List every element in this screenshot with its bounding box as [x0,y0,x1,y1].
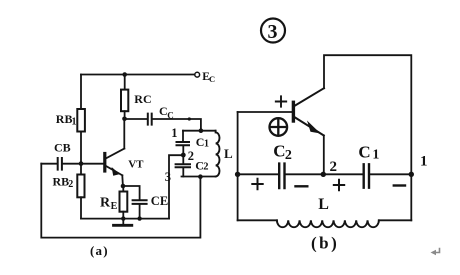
resistor RB2 [77,175,84,198]
label C2 (b) [273,141,292,163]
svg-text:(a): (a) [90,243,109,258]
capacitor CC [148,114,152,125]
wire middle line (b) [238,173,412,175]
wire CC left lead [125,118,148,120]
resistor RB1 [77,109,85,132]
label C1 (b) [358,143,379,163]
svg-text:E: E [111,201,118,212]
wire CB leads [41,163,104,165]
capacitor CB [58,158,62,170]
wire left branch vertical [80,75,82,219]
label node 2 [188,149,194,163]
capacitor C1 (b) [364,164,369,187]
node 2 junction [181,153,186,158]
wire feedback loop [41,164,200,238]
label C2 [195,158,208,172]
node collector/CC junction [122,117,127,122]
node CE stem junction [137,216,141,220]
svg-text:1: 1 [171,126,177,140]
label CB [54,140,71,154]
label plus left of C2 [252,179,262,189]
wire RC top [124,75,126,90]
wire bottom left segment (b) [238,219,277,221]
label VT [128,158,144,170]
svg-text:R: R [100,195,111,210]
svg-text:RB: RB [56,112,73,126]
capacitor C1 (a) [177,142,190,145]
svg-text:L: L [318,196,329,213]
wire base lead (b) [238,111,293,113]
svg-text:1: 1 [420,154,428,170]
wire emitter down to node 2 (b) [323,136,325,175]
label L (b) [318,196,329,213]
transistor VT [105,149,125,176]
node RE stem junction [121,216,125,220]
wire CC to tank top [152,119,201,131]
node base junction [79,161,84,166]
svg-text:2: 2 [285,148,292,163]
capacitor C2 (b) [279,164,284,188]
svg-text:3: 3 [165,170,171,184]
node tank bottom junction [198,174,203,179]
svg-text:RB: RB [53,175,70,189]
svg-text:VT: VT [128,158,144,170]
transistor (b) [293,88,324,135]
label RB1 [56,112,77,127]
capacitor C2 (a) [176,164,190,167]
wire left vertical (b) [237,112,239,220]
wire C1 to node 2 [182,146,184,164]
label node 1 [171,126,177,140]
label node 2 (b) [330,159,338,175]
svg-text:C: C [358,143,370,162]
label node 1 (b) [420,154,428,170]
svg-text:C: C [209,74,215,84]
resistor RE [120,192,128,212]
label plus right of node 2 [334,180,344,190]
label RB2 [53,175,74,191]
label node 3 [165,170,171,184]
inductor L (a) [216,131,220,177]
svg-text:CB: CB [54,140,71,154]
svg-text:3: 3 [268,21,278,43]
wire emitter down to node [121,175,124,186]
wire to CE [123,186,140,219]
svg-text:RC: RC [134,92,151,106]
svg-text:2: 2 [203,162,208,173]
wire bottom right segment (b) [379,219,412,221]
svg-text:1: 1 [72,116,77,127]
node tank top junction [199,128,204,133]
node 2 junction (b) [321,172,326,177]
wire node2 to emitter ground line [169,155,183,218]
node left junction (b) [235,172,240,177]
caption (a) [90,243,109,258]
wire C2 to tank bottom [182,168,184,177]
label C1 [196,135,209,149]
wire tank bottom line [182,176,216,178]
svg-text:2: 2 [330,159,338,175]
svg-text:2: 2 [188,149,194,163]
svg-text:CE: CE [151,194,168,208]
label plus at base [276,96,286,106]
artifact gray return arrow [431,249,440,256]
svg-text:C: C [273,141,285,160]
wire tank left upper lead [182,131,184,142]
node junction at RC top [122,72,127,77]
label RC [134,92,151,106]
svg-text:(b): (b) [311,234,339,253]
marker circled plus (emitter junction) [270,118,288,136]
terminal EC [195,72,200,77]
marker circled 3 [261,19,285,44]
label minus right of C2 [296,185,308,187]
ground [114,219,132,226]
wire tank top line [183,130,216,132]
resistor RC [121,90,128,112]
wire emitter node to RE [122,186,124,219]
node small dot on CC wire [188,117,191,120]
wire collector to RC [123,111,125,148]
node emitter junction [121,184,126,189]
label minus left of node 1 [394,184,405,186]
svg-text:L: L [224,146,233,161]
label RE [100,195,118,211]
label EC [202,71,215,84]
wire top supply rail (a) [81,74,195,76]
svg-text:1: 1 [372,148,379,163]
wire bias/emitter bottom line [81,218,169,220]
label CE [151,194,168,208]
label CC [159,104,174,120]
node 1 junction (b) [409,172,414,177]
label L (a) [224,146,233,161]
capacitor CE [133,200,147,204]
inductor L (b) [277,220,379,227]
wire collector box (b) [324,55,411,220]
svg-text:1: 1 [204,138,209,149]
svg-text:2: 2 [68,179,73,190]
caption (b) [311,234,339,253]
